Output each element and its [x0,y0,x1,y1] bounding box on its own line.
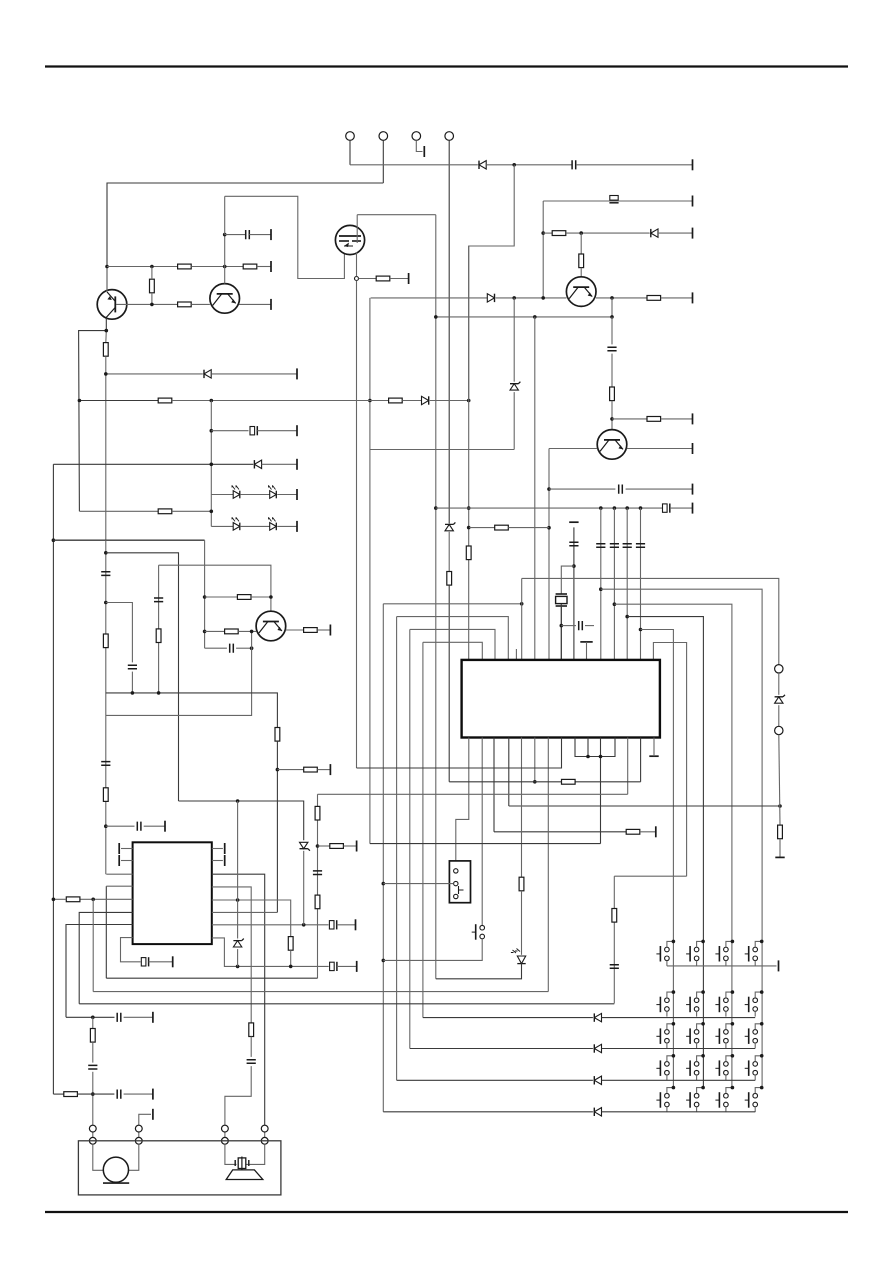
capacitor C22 (polarized) [329,920,336,929]
MOSFET Q3 [335,225,364,254]
junction [223,233,227,237]
wire [513,392,515,449]
wire switch top [697,1056,704,1062]
junction [731,1022,735,1026]
diode D1 [479,161,486,169]
zener diode ZD3 [775,695,785,703]
junction [672,1054,676,1058]
connector pin M- b [89,1137,96,1144]
wire [211,430,248,432]
wire Q2 collector to MOSFET gate [225,196,345,278]
terminal [164,821,166,832]
wire switch bottom [754,1107,756,1112]
capacitor C15 [610,544,619,548]
wire [224,1132,226,1138]
junction [760,1054,764,1058]
relay/jack box [449,861,470,903]
wire [211,525,233,527]
terminal [152,1109,154,1120]
wire [611,317,613,345]
junction [547,526,551,530]
pushbutton switch S10 [686,1028,699,1044]
wire switch bottom [666,1075,668,1080]
resistor R31 [315,895,320,909]
terminal [329,625,331,636]
wire switch bottom [725,1075,727,1080]
wire bus6 drop [653,643,686,877]
wire [179,801,304,840]
wire [53,463,253,465]
junction [104,372,108,376]
wire J1-3 stem [416,140,422,151]
junction [467,526,471,530]
wire Q5 base row [371,297,488,299]
resistor R9 [610,387,615,401]
resistor R38 [103,343,108,357]
wire switch top [755,992,762,998]
junction [150,303,154,307]
wire [105,886,107,978]
junction [599,506,603,510]
wire [585,625,594,627]
wire [383,939,482,961]
resistor R2 [178,264,192,269]
wire U2 pin 2 [106,885,132,887]
resistor R37 [64,1092,78,1097]
capacitor C4 [607,347,616,351]
wire bus3 [410,629,495,660]
wire [670,507,693,509]
wire Q2 collector [224,235,226,284]
junction [625,615,629,619]
wire supply row [436,507,663,509]
wire switch top [667,1056,674,1062]
wire [469,527,494,529]
capacitor C6 (polarized) [250,426,257,435]
wire switch top [726,1088,733,1094]
wire [106,825,135,827]
resistor R23 [495,525,509,530]
junction [91,898,95,902]
wire [53,539,204,541]
capacitor C8 [128,665,137,669]
resistor R17 [156,629,161,643]
pushbutton switch S9 [656,1028,669,1044]
junction [599,587,603,591]
wire U2 pin [121,848,133,850]
capacitor C11 (polarized) [663,504,670,513]
wire [257,430,297,432]
zener diode ZD1 [510,382,520,390]
wire U1 pin [521,738,523,878]
terminal [152,1012,154,1023]
junction [672,1086,676,1090]
terminal [692,484,694,495]
wire long bus (U2 pin4) [79,1003,614,1005]
wire switch bottom [696,1043,698,1048]
junction [610,417,614,421]
resistor R1 [376,276,390,281]
pushbutton switch S17 [656,1092,669,1108]
resistor R22 [304,767,318,772]
wire [205,647,227,649]
resistor R32 [66,897,80,902]
junction [131,691,135,695]
junction [639,628,643,632]
wire left rail B upper [105,356,107,540]
junction [613,506,617,510]
wire motor column [92,1017,94,1028]
ground bar U1 bottom [649,755,658,757]
resistor R24 [626,829,640,834]
wire [359,278,377,280]
wire [262,463,297,465]
wire [612,418,647,420]
IC U2 (audio amp) [133,842,212,944]
resistor R18 [237,595,251,600]
wire switch top [667,1024,674,1030]
capacitor C24 [101,762,110,766]
wire [580,233,582,254]
wire [257,266,271,268]
wire U1 pin [640,738,642,782]
resistor R15 [158,509,172,514]
mechanism box [78,1141,281,1195]
wire switch bottom [696,1107,698,1112]
wire Q1 emitter down [79,318,107,511]
wire [602,1079,756,1081]
terminal [655,826,657,837]
junction [157,691,161,695]
junction [105,329,109,333]
wire U1 pin [493,738,495,832]
terminal [692,443,694,454]
resistor R29 [315,806,320,820]
wire U1 pin to S17 [481,738,483,926]
wire to U1 pin [548,449,550,661]
junction [210,510,214,514]
wire left rail GND [52,464,54,1094]
capacitor C18 [610,965,619,969]
wire [92,1132,94,1138]
wire switch top [697,992,704,998]
wire switch top [755,1024,762,1030]
resistor R35 [103,788,108,802]
junction [236,898,240,902]
wire ground stub [653,738,655,757]
junction [302,923,306,927]
wire cap column [626,508,628,660]
wire [77,1093,114,1095]
wire J1-1 stem [349,140,351,165]
wire [191,303,210,305]
terminal [355,919,357,930]
wire [139,1114,151,1125]
capacitor C16 [623,544,632,548]
wire MOSFET drain [356,215,358,243]
junction [434,315,438,319]
terminal key [423,146,425,157]
connector pin SP+ [261,1125,268,1132]
terminal [118,855,120,866]
junction [701,1054,705,1058]
wire [92,1042,94,1063]
transistor Q1 [97,290,127,320]
LED LED1 [232,485,240,498]
wire [486,164,572,166]
wire [496,297,567,299]
junction [368,399,372,403]
wire U2 pin 5 [66,925,133,1018]
wire U2 out left [212,887,251,1023]
wire [159,565,271,611]
wire [225,1144,237,1164]
wire switch top [726,992,733,998]
wire [602,1111,756,1113]
wire bus1 [383,603,521,605]
junction [639,506,643,510]
wire switch top [726,1056,733,1062]
junction [467,399,471,403]
wire [430,400,469,402]
junction [701,1086,705,1090]
pushbutton switch S17 [472,924,485,940]
wire [210,401,212,527]
wire [172,510,212,512]
resistor R10 [647,417,661,422]
ground [775,856,784,858]
wire Q6 emitter [286,629,304,631]
junction [250,646,254,650]
wire [449,781,561,783]
wire U1 pin tie [575,738,615,757]
connector pin SP- b [222,1137,229,1144]
resistor R5 [178,302,192,307]
terminal [270,261,272,272]
junction [236,799,240,803]
junction [104,601,108,605]
wire keypad row 2 [423,1017,593,1019]
wire aux column B [317,794,319,978]
wire left bus A [369,298,371,844]
wire [390,278,409,280]
wire U1 pin to relay [456,738,469,861]
wire to relay [383,883,453,885]
wire [277,525,297,527]
wire [106,631,252,715]
resistor R14 [466,546,471,560]
wire switch bottom [696,1011,698,1016]
terminal [329,764,331,775]
wire LED feed [79,510,158,512]
terminal [692,292,694,303]
terminal [296,521,298,532]
capacitor C17 [636,544,645,548]
junction [250,630,254,634]
wire U1 pin [587,738,589,757]
pushbutton switch S13 [656,1060,669,1076]
wire Q2 emitter [239,303,271,305]
wire bus1 drop [382,604,384,1112]
wire keypad col4 rail [601,589,762,1087]
wire U2 pin [121,860,133,862]
diode D4 [204,370,211,378]
wire U1 pin to bus [547,738,549,992]
terminal [270,229,272,240]
junction [105,265,109,269]
wire [251,596,271,598]
transistor Q5 [566,277,596,307]
wire U2 pin [212,938,329,967]
wire switch bottom [754,1011,756,1016]
connector J2 pin 2 [775,726,783,734]
wire switch bottom [754,1043,756,1048]
wire U2 pin 6 [121,938,141,962]
junction [533,315,537,319]
wire U2 pin 1 [106,873,132,875]
resistor R16 [103,634,108,648]
resistor R4 [150,279,155,293]
wire [92,899,94,991]
wire switch top [726,941,733,947]
wire [149,961,173,963]
wire switch top [667,1088,674,1094]
wire [543,232,552,234]
connector J1 pin 2 [379,132,388,141]
junction [701,1022,705,1026]
bottom rule [45,1211,848,1213]
wire [131,672,133,693]
junction [512,296,516,300]
wire [53,1093,63,1095]
diode D8 [594,1013,601,1021]
wire switch bottom [666,1011,668,1016]
terminal [356,961,358,972]
pushbutton switch S12 [745,1028,758,1044]
wire U2 pin 4 [79,912,132,1003]
junction [78,399,82,403]
pushbutton switch S2 [686,946,699,962]
wire [508,527,549,529]
junction [547,487,551,491]
junction [203,630,207,634]
terminal [692,228,694,239]
wire [611,354,613,387]
wire [205,596,238,598]
wire [658,232,693,234]
wire drain bus [436,316,612,318]
wire bus3 drop [409,629,411,1048]
wire [566,232,650,234]
pushbutton switch S1 [656,946,669,962]
wire [614,875,686,877]
relay contact b [454,881,458,885]
wire [661,418,693,420]
capacitor C5 [619,485,623,494]
junction [203,595,207,599]
wire [448,532,450,572]
wire [448,585,450,782]
wire [318,793,628,795]
wire [626,488,693,490]
capacitor C27 [88,1065,97,1069]
wire U1 pin [508,738,510,807]
speaker LS1 [226,1157,263,1180]
wire U2 out right [212,874,265,1125]
wire [138,1132,140,1138]
capacitor C7 [101,572,110,576]
wire [778,673,780,695]
capacitor C28 [117,1090,121,1099]
wire [575,781,641,783]
wire switch top [667,992,674,998]
wire [106,693,278,728]
junction [579,231,583,235]
wire [521,891,523,955]
capacitor C2 [246,230,250,239]
wire cap column [613,508,615,660]
wire switch top [755,1088,762,1094]
wire [238,630,256,632]
terminal [172,956,174,967]
terminal [296,459,298,470]
wire [158,565,160,693]
wire [105,331,108,343]
capacitor C3 (polarized) [609,196,618,203]
wire ground stub [586,642,588,661]
wire [225,1066,251,1125]
resistor R3 [243,264,257,269]
wire U1 pin [627,738,629,795]
wire keypad col3 rail [614,604,732,1087]
junction [760,990,764,994]
wire [436,964,522,979]
wire [494,831,626,833]
wire [205,630,225,632]
wire [343,845,356,847]
pushbutton switch S15 [715,1060,728,1076]
junction [760,1086,764,1090]
wire [290,950,292,966]
wire bus5 drop [435,215,437,979]
junction [269,595,273,599]
junction [533,780,537,784]
wire bias row [107,266,178,268]
transistor Q6 [256,611,286,641]
resistor R20 [304,628,318,633]
wire [561,625,576,627]
wire [237,801,239,939]
junction [731,990,735,994]
terminal [692,503,694,514]
junction [760,1022,764,1026]
capacitor C26 [117,1013,121,1022]
motor M1 [103,1157,129,1183]
wire U2 pin [212,848,223,850]
junction [610,296,614,300]
wire [509,805,780,807]
resistor R30 [330,844,344,849]
wire sense row [79,400,158,402]
wire U1 pin [534,738,536,782]
top rule [45,65,848,67]
junction [610,315,614,319]
pushbutton switch S6 [686,997,699,1013]
capacitor C21 [247,1060,256,1064]
wire keypad col1 rail [641,630,674,1088]
pushbutton switch S19 [715,1092,728,1108]
IC U1 (main microcontroller) [462,660,660,738]
